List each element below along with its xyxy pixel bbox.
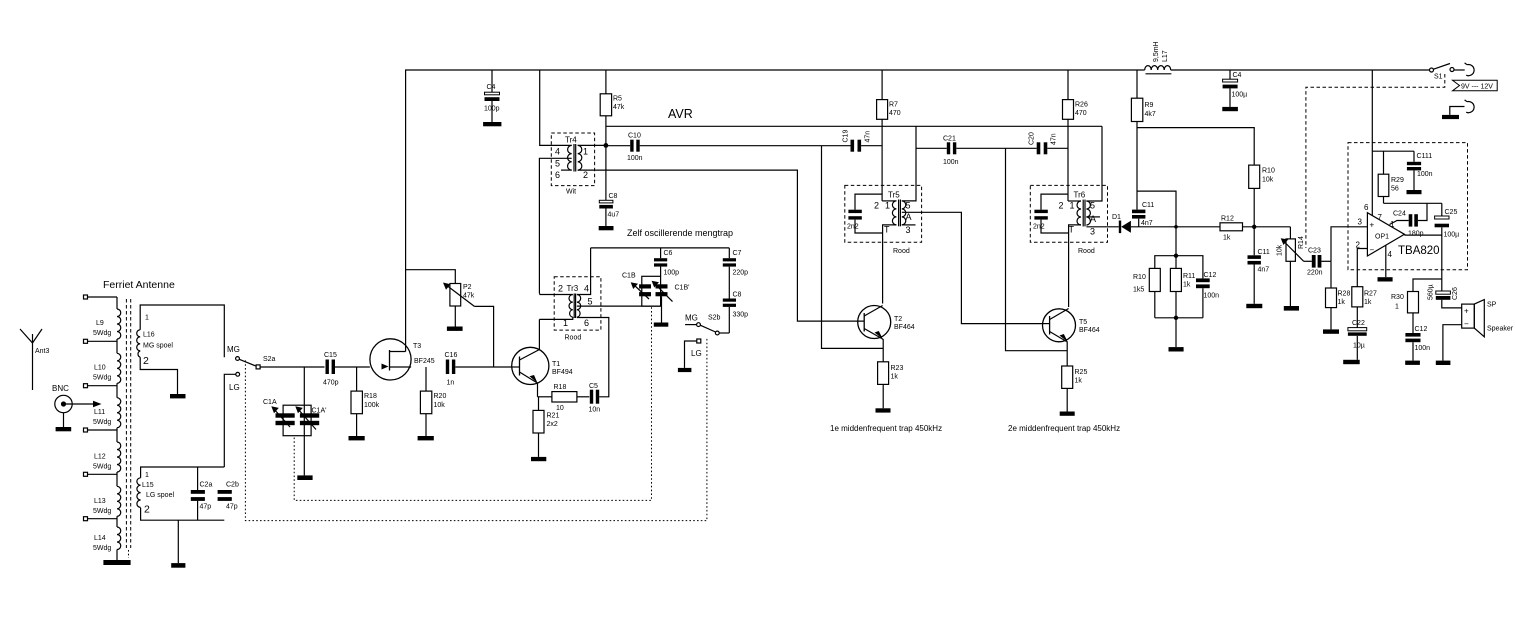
svg-text:2: 2 (143, 355, 149, 367)
capacitor C1B variable (642, 276, 661, 306)
svg-text:4n7: 4n7 (1141, 220, 1153, 227)
antenna Ant3 (20, 329, 42, 343)
wire Tr5 pinA to T5 base (902, 212, 1041, 323)
svg-text:56: 56 (1391, 186, 1399, 193)
svg-text:BNC: BNC (52, 384, 69, 393)
coil L10 (117, 353, 121, 383)
ground C4 power (1222, 107, 1238, 111)
svg-text:1k: 1k (1183, 282, 1191, 289)
coil L16 MG spoel (140, 305, 224, 357)
wire antenna coil chain (116, 297, 118, 560)
mech link dotted tuning gang (294, 307, 651, 501)
svg-text:C26: C26 (1452, 287, 1459, 300)
capacitor C16 1n (446, 360, 449, 375)
coil L9 (117, 309, 121, 339)
svg-text:4u7: 4u7 (608, 212, 620, 219)
ground pin4 (1378, 277, 1393, 281)
svg-text:R28: R28 (1338, 291, 1351, 298)
tap terminal 1 (84, 295, 88, 299)
resistor R21 2x2 (538, 397, 540, 411)
capacitor C12 100n (speaker) (1405, 333, 1420, 337)
svg-text:220p: 220p (733, 270, 749, 277)
resistor R9 4k7 (1136, 70, 1138, 98)
switch S2b (719, 332, 729, 334)
svg-text:C8: C8 (609, 193, 618, 200)
wire Tr6 pinT to T5 collector (1069, 225, 1081, 307)
wire L15 to ground (177, 520, 179, 563)
svg-text:2x2: 2x2 (547, 421, 558, 428)
wire Tr5 pin5 feed (902, 126, 916, 201)
svg-text:3: 3 (906, 225, 911, 235)
svg-text:330p: 330p (733, 312, 749, 319)
svg-text:R25: R25 (1075, 369, 1088, 376)
svg-text:C20: C20 (1029, 132, 1036, 145)
svg-text:SP: SP (1487, 302, 1497, 309)
svg-text:LG spoel: LG spoel (146, 492, 174, 499)
svg-text:−: − (1464, 320, 1469, 329)
transformer Tr3 windings (569, 295, 573, 318)
ground C22 (1343, 360, 1360, 364)
mech link S1 dashed (1306, 74, 1445, 248)
svg-text:Rood: Rood (893, 248, 910, 255)
wire filter top bus (1175, 227, 1177, 269)
svg-text:5Wdg: 5Wdg (93, 508, 111, 515)
svg-text:Tr6: Tr6 (1074, 191, 1086, 200)
capacitor C20 47n (1006, 147, 1037, 149)
svg-text:1k: 1k (891, 374, 899, 381)
svg-text:Tr4: Tr4 (565, 136, 577, 145)
wire top supply rail right section (1171, 69, 1430, 71)
ground R23 (876, 408, 891, 412)
svg-text:T5: T5 (1079, 319, 1087, 326)
svg-text:S1: S1 (1434, 74, 1443, 81)
ground S2b LG (678, 368, 692, 372)
capacitor C8 330p (723, 299, 736, 302)
svg-text:C2b: C2b (226, 482, 239, 489)
wire R30 branch (1413, 279, 1442, 292)
svg-text:7: 7 (1378, 213, 1383, 222)
ground R14 (1284, 306, 1299, 311)
svg-text:1: 1 (885, 201, 890, 211)
transistor T3 BF245 (370, 339, 411, 380)
svg-text:Speaker: Speaker (1487, 326, 1514, 333)
coil L14 (117, 527, 121, 550)
capacitor C15 470p (326, 360, 329, 375)
wire S2a to C15 (260, 366, 325, 368)
coil L13 (117, 486, 121, 516)
capacitor C4 100p (left) (491, 70, 493, 92)
svg-text:2: 2 (1356, 241, 1361, 250)
svg-text:1k: 1k (1223, 235, 1231, 242)
ground BNC (56, 427, 72, 431)
svg-text:470p: 470p (323, 380, 339, 387)
svg-text:220n: 220n (1307, 270, 1323, 277)
svg-text:100µ: 100µ (1232, 92, 1248, 99)
svg-text:5: 5 (906, 201, 911, 211)
svg-text:10: 10 (556, 405, 564, 412)
wire Tr5 pin1 (882, 200, 896, 202)
speaker SP (1462, 304, 1475, 328)
wire Tr3 pin4 to osc loop (577, 248, 591, 295)
ground filter (1169, 347, 1184, 351)
svg-text:C15: C15 (324, 352, 337, 359)
transformer Tr4 windings (568, 145, 572, 170)
ground R25 (1060, 412, 1075, 416)
svg-text:−: − (1370, 246, 1375, 255)
svg-text:C11: C11 (1258, 249, 1270, 256)
svg-text:BF464: BF464 (1079, 327, 1100, 334)
svg-text:C12: C12 (1415, 326, 1428, 333)
svg-text:100p: 100p (484, 106, 500, 113)
svg-text:T: T (884, 225, 890, 235)
svg-text:L9: L9 (96, 320, 104, 327)
ground R21 (531, 457, 546, 461)
node R10 detector junction (1252, 225, 1256, 229)
ground R28 (1323, 329, 1339, 333)
svg-text:BF245: BF245 (414, 358, 435, 365)
wire C1B ground stub (661, 296, 663, 322)
svg-text:C2a: C2a (200, 482, 213, 489)
svg-text:100n: 100n (1417, 171, 1433, 178)
svg-text:C16: C16 (445, 352, 458, 359)
svg-text:R21: R21 (547, 413, 560, 420)
capacitor C8 4u7 (605, 145, 607, 200)
svg-text:Tr5: Tr5 (888, 191, 900, 200)
svg-text:C23: C23 (1308, 248, 1321, 255)
ground P2 (447, 327, 463, 331)
svg-text:R30: R30 (1391, 294, 1404, 301)
svg-text:C12: C12 (1204, 272, 1217, 279)
svg-text:5Wdg: 5Wdg (93, 330, 111, 337)
capacitor 2n2 Tr6 (1041, 194, 1068, 210)
wire Tr5 pinT to T2 collector (883, 225, 897, 304)
svg-text:3: 3 (1358, 218, 1363, 227)
capacitor C6 100p (660, 248, 662, 258)
svg-text:L10: L10 (94, 365, 106, 372)
wire Tr4 pin5 down to T1 collector (539, 158, 571, 293)
transformer Tr6 windings (1077, 201, 1081, 225)
svg-text:+: + (1464, 307, 1469, 316)
wire Tr4 pin6 stub (561, 169, 572, 171)
svg-text:S2b: S2b (708, 315, 721, 322)
svg-text:C4: C4 (487, 84, 496, 91)
svg-text:R20: R20 (434, 393, 447, 400)
svg-text:MG spoel: MG spoel (143, 343, 173, 350)
capacitor C21 100n (916, 147, 947, 149)
dashed box TBA820 (1348, 143, 1468, 270)
svg-text:47p: 47p (200, 504, 212, 511)
svg-text:R29: R29 (1391, 177, 1404, 184)
capacitor C11 4n7 (det top) (1132, 210, 1145, 214)
svg-text:2: 2 (1059, 201, 1064, 211)
svg-text:470: 470 (1075, 110, 1087, 117)
svg-text:2: 2 (583, 170, 588, 180)
switch S2a lever (239, 359, 256, 366)
svg-text:R10: R10 (1133, 274, 1146, 281)
svg-text:A: A (906, 212, 912, 222)
resistor R18 100k (356, 367, 358, 391)
ferrite core dashed (125, 299, 127, 548)
wire Tr6 pin1 (1068, 200, 1081, 202)
wire T2 emitter bias (822, 146, 884, 349)
connector plug top (1465, 63, 1475, 76)
svg-text:1: 1 (145, 315, 149, 322)
wire top supply rail left section (406, 70, 1145, 352)
svg-text:4: 4 (555, 147, 560, 157)
svg-text:MG: MG (685, 314, 698, 323)
wire C111 branch (1372, 150, 1414, 152)
capacitor C11 4n7 (second) (1253, 227, 1255, 256)
wire C5 to Tr3 pin6 (577, 318, 609, 397)
svg-text:R18: R18 (364, 393, 377, 400)
coil L11 (117, 398, 121, 428)
capacitor C111 100n (1413, 151, 1415, 162)
svg-text:L15: L15 (142, 482, 154, 489)
resistor R11 1k (1170, 268, 1181, 291)
svg-text:5: 5 (555, 159, 560, 169)
capacitor C1A variable (283, 405, 311, 436)
resistor R25 1k (1062, 366, 1073, 388)
svg-text:C11: C11 (1142, 202, 1154, 209)
svg-text:L14: L14 (94, 535, 106, 542)
wire C1A' vertical to ground (303, 367, 305, 475)
battery banner 9V-12V (1453, 80, 1498, 91)
svg-text:R9: R9 (1145, 102, 1154, 109)
wire supply to op-amp (1371, 70, 1373, 216)
transformer Tr5 dashed box (845, 185, 922, 242)
svg-text:5Wdg: 5Wdg (93, 375, 111, 382)
svg-text:2: 2 (144, 504, 150, 516)
svg-text:1: 1 (1395, 304, 1399, 311)
svg-text:C24: C24 (1393, 211, 1406, 218)
resistor R10 10k (AVR) (1249, 165, 1260, 188)
svg-text:1: 1 (1070, 201, 1075, 211)
svg-text:C1A': C1A' (312, 408, 327, 415)
svg-text:C10: C10 (628, 133, 641, 140)
tap terminal 2 (84, 339, 88, 343)
svg-text:100n: 100n (943, 159, 959, 166)
svg-text:T3: T3 (413, 343, 421, 350)
tap terminal 3 (84, 384, 88, 388)
svg-text:A: A (1090, 214, 1096, 224)
ground C8 (599, 226, 614, 230)
capacitor C22 10u (1348, 328, 1367, 331)
capacitor C24 180p (1390, 221, 1409, 225)
svg-text:+: + (1370, 221, 1375, 230)
wire oscillator top loop (591, 247, 730, 249)
capacitor C4 100u (power) (1229, 70, 1231, 79)
capacitor C2b 47p (218, 490, 232, 494)
ground C4 left (483, 122, 501, 126)
resistor R18 10 (emitter) (538, 396, 552, 398)
resistor R29 56 (1383, 151, 1385, 174)
capacitor 2n2 Tr5 (855, 194, 882, 210)
capacitor C10 100n (606, 145, 630, 147)
svg-text:2e middenfrequent trap 450kHz: 2e middenfrequent trap 450kHz (1008, 424, 1120, 433)
svg-text:R26: R26 (1075, 102, 1088, 109)
svg-text:C8: C8 (733, 292, 742, 299)
wire R29 bottom line (1384, 202, 1442, 204)
wire lower connector to ground (1450, 107, 1465, 115)
svg-text:R23: R23 (891, 365, 904, 372)
wire pin4 ground (1385, 245, 1387, 277)
svg-text:10µ: 10µ (1353, 343, 1365, 350)
svg-text:R7: R7 (889, 102, 898, 109)
svg-text:R14: R14 (1298, 236, 1305, 249)
wire Tr3 pin5 to C1B bus (577, 305, 661, 307)
svg-text:9,5mH: 9,5mH (1153, 41, 1160, 62)
tap terminal 6 (84, 517, 88, 521)
svg-text:47n: 47n (865, 131, 872, 143)
svg-text:1n: 1n (447, 380, 455, 387)
svg-text:1e middenfrequent trap 450kHz: 1e middenfrequent trap 450kHz (830, 424, 942, 433)
wire detector line (1131, 226, 1220, 228)
svg-text:47k: 47k (613, 104, 625, 111)
wire Tr5 pin3 stub (902, 224, 916, 226)
svg-text:C19: C19 (843, 130, 850, 143)
tap terminal 4 (84, 428, 88, 432)
svg-text:Ant3: Ant3 (35, 348, 50, 355)
svg-text:47n: 47n (1051, 133, 1058, 145)
svg-text:C6: C6 (664, 250, 673, 257)
ground L16 (170, 394, 186, 398)
svg-text:D1: D1 (1112, 214, 1121, 221)
ground L15 (171, 563, 185, 568)
svg-text:9V --- 12V: 9V --- 12V (1461, 84, 1493, 91)
capacitor C2a 47p (197, 467, 199, 490)
node filter junction (1174, 225, 1178, 229)
tap terminal 5 (84, 472, 88, 476)
svg-text:Tr3: Tr3 (567, 284, 579, 293)
resistor R7 470 (881, 70, 883, 100)
svg-text:Ferriet Antenne: Ferriet Antenne (103, 279, 175, 291)
op-amp OP1 triangle (1367, 213, 1404, 256)
svg-text:5Wdg: 5Wdg (93, 419, 111, 426)
diode D1 (1119, 221, 1121, 234)
resistor R28 1k (1330, 261, 1332, 288)
wire AVR to Tr6 pin5 (1086, 126, 1102, 201)
svg-text:Zelf oscillerende mengtrap: Zelf oscillerende mengtrap (627, 228, 733, 238)
svg-text:10k: 10k (434, 402, 446, 409)
svg-text:C5: C5 (589, 383, 598, 390)
resistor R30 1 (1408, 292, 1419, 313)
resistor R27 1k (1352, 287, 1363, 307)
wire L16 pin2 to ground (140, 357, 177, 394)
mech link dotted band switch (245, 338, 707, 521)
ground speaker (1436, 361, 1451, 365)
svg-text:LG: LG (691, 349, 702, 358)
wire Tr6 pin3 to detector (1086, 226, 1118, 228)
svg-text:L11: L11 (94, 409, 105, 416)
svg-text:C22: C22 (1352, 320, 1365, 327)
svg-text:100n: 100n (1415, 345, 1431, 352)
svg-text:4n7: 4n7 (1258, 267, 1270, 274)
potentiometer P2 47k (406, 270, 456, 284)
ground C1B (654, 323, 669, 327)
svg-text:T: T (1069, 225, 1075, 235)
svg-text:AVR: AVR (668, 107, 693, 121)
wire AVR line (606, 125, 1102, 127)
svg-text:LG: LG (229, 383, 240, 392)
wire speaker minus to ground (1443, 325, 1462, 361)
svg-text:C1B: C1B (622, 273, 636, 280)
switch S2a MG contact (236, 357, 240, 361)
resistor R23 1k (878, 362, 889, 385)
capacitor C25 100u (1441, 203, 1443, 216)
wire pin2 to R27 (1357, 249, 1367, 287)
svg-text:BF464: BF464 (894, 324, 915, 331)
transformer Tr3 dashed box (554, 277, 601, 330)
svg-text:100n: 100n (627, 155, 643, 162)
svg-text:560µ: 560µ (1428, 284, 1435, 300)
svg-text:6: 6 (584, 318, 589, 328)
inductor L17 (1145, 66, 1171, 70)
svg-text:47p: 47p (226, 504, 238, 511)
svg-text:BF494: BF494 (552, 369, 573, 376)
svg-text:S2a: S2a (263, 356, 276, 363)
svg-text:1k: 1k (1364, 299, 1372, 306)
transistor T1 BF494 (512, 347, 549, 384)
ground R20 (418, 436, 434, 440)
coil L15 LG spoel box (141, 467, 225, 478)
svg-text:Rood: Rood (1078, 248, 1095, 255)
switch S2b LG contact (697, 339, 701, 343)
wire Tr4 pin4 to rail (540, 70, 572, 145)
svg-text:C21: C21 (943, 136, 956, 143)
svg-text:1k5: 1k5 (1133, 287, 1144, 294)
svg-text:L17: L17 (1162, 50, 1169, 62)
connector plug lower (1465, 100, 1475, 113)
svg-text:MG: MG (227, 345, 240, 354)
capacitor C23 220n (1304, 260, 1312, 262)
transformer Tr4 dashed box (551, 133, 594, 186)
transformer Tr5 windings (892, 201, 896, 225)
transformer Tr6 dashed box (1030, 185, 1107, 242)
svg-text:1k: 1k (1075, 378, 1083, 385)
ground C12 speaker (1405, 361, 1420, 365)
svg-text:5Wdg: 5Wdg (93, 464, 111, 471)
capacitor C1B' variable (656, 284, 668, 288)
switch S1 (1430, 68, 1434, 72)
svg-text:47k: 47k (463, 293, 475, 300)
node Tr4 pin1 junction (604, 143, 609, 148)
svg-text:5Wdg: 5Wdg (93, 545, 111, 552)
ground R18 (349, 436, 365, 440)
ground lower connector (1442, 115, 1459, 119)
wire output (1404, 235, 1441, 291)
ground coil chain (103, 560, 130, 565)
resistor R12 1k (1220, 223, 1243, 231)
capacitor C26 560u output (1436, 291, 1451, 294)
resistor R20 10k (425, 367, 427, 391)
transistor T5 BF464 (1043, 309, 1076, 342)
svg-text:10n: 10n (589, 407, 601, 414)
svg-text:180p: 180p (1408, 231, 1424, 238)
svg-text:R12: R12 (1221, 216, 1234, 223)
svg-text:C111: C111 (1417, 153, 1433, 160)
svg-text:100µ: 100µ (1444, 232, 1460, 239)
wire R9 branch to R10 10k (1137, 128, 1254, 166)
svg-text:4: 4 (584, 284, 589, 294)
wire Tr6 pinA stub (1086, 216, 1100, 218)
svg-text:3: 3 (1090, 227, 1095, 237)
svg-text:R10: R10 (1262, 168, 1275, 175)
svg-text:P2: P2 (463, 284, 472, 291)
svg-text:L12: L12 (94, 454, 106, 461)
wire Tr4 pin2 to T2 base (578, 170, 865, 321)
svg-text:1k: 1k (1338, 299, 1346, 306)
svg-text:1: 1 (583, 147, 588, 157)
